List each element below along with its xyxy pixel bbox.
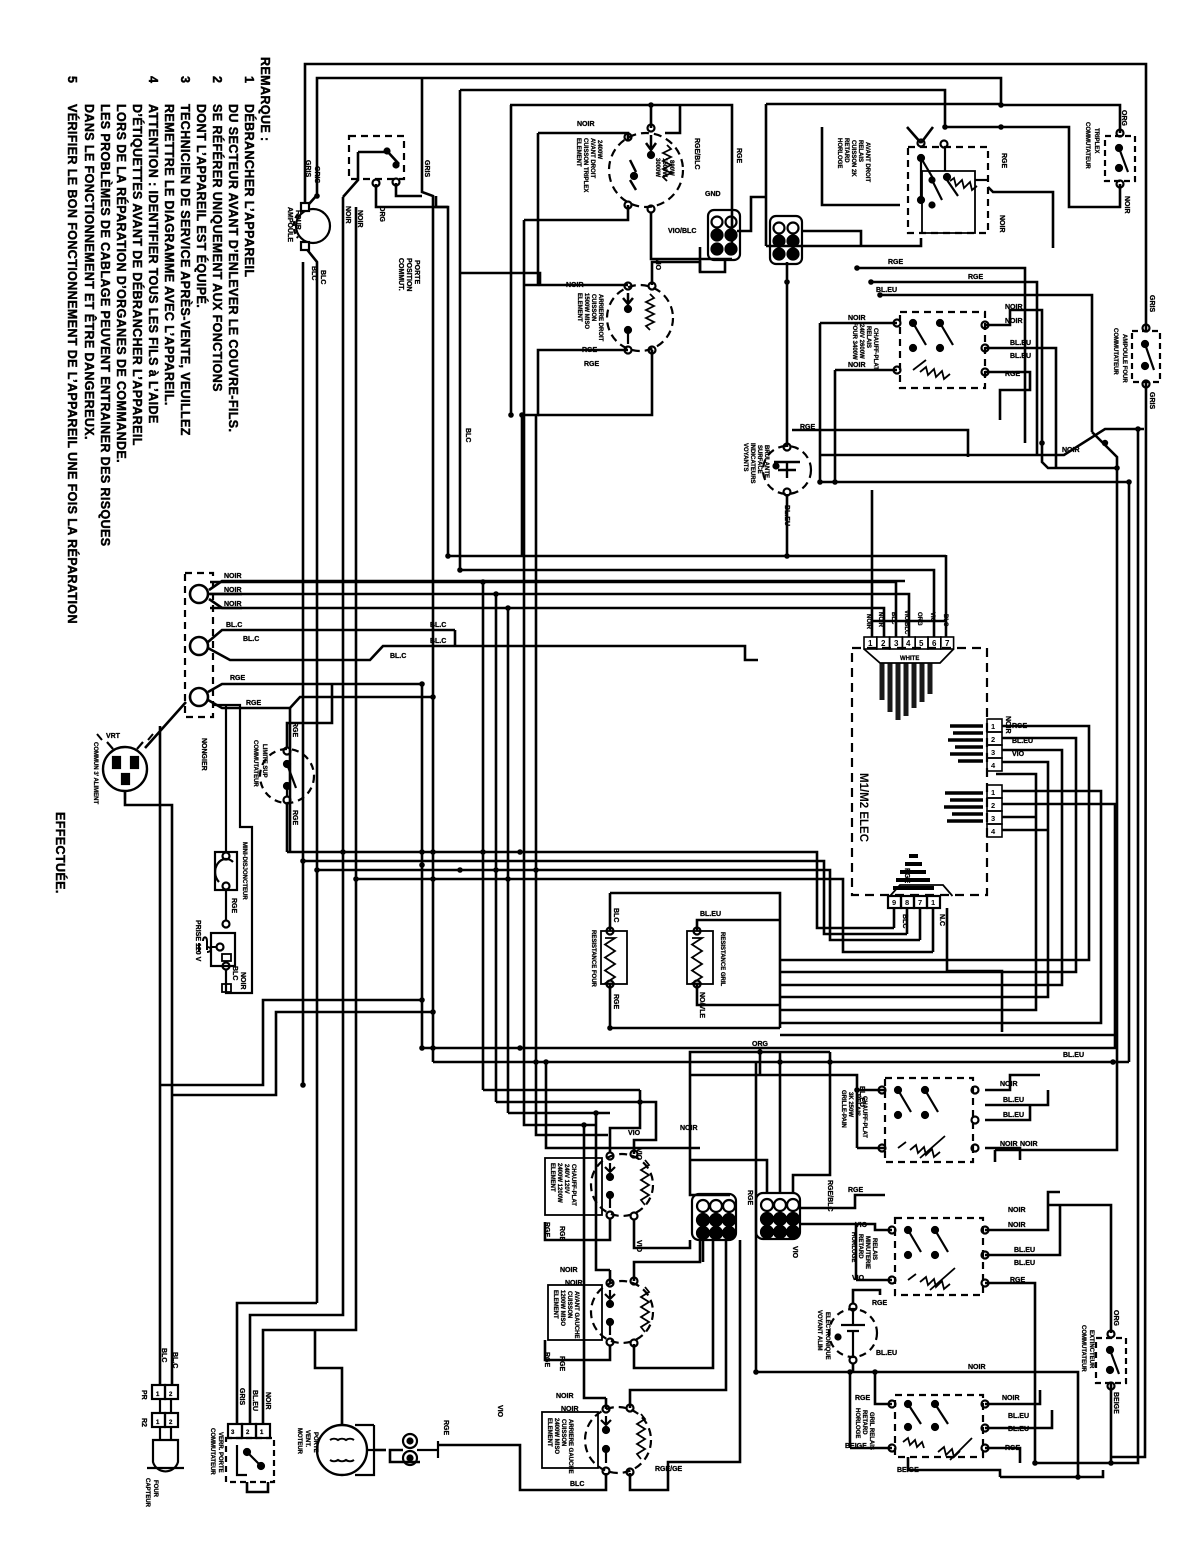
wire relay R1 rge wire 2 <box>871 282 1037 455</box>
wire element E5 vio <box>630 1240 726 1408</box>
svg-text:INDICATEURS: INDICATEURS <box>749 443 755 484</box>
svg-text:N.C: N.C <box>938 914 945 926</box>
svg-text:1: 1 <box>991 788 995 797</box>
wire relay box3 out 3 <box>985 1105 1030 1120</box>
wire bus y865 <box>317 870 920 940</box>
wire x536 long down <box>536 415 608 1135</box>
svg-text:BL.C: BL.C <box>430 622 446 629</box>
svg-text:SE RÉFÉRER UNIQUEMENT AUX FONC: SE RÉFÉRER UNIQUEMENT AUX FONCTIONS <box>210 104 225 392</box>
plug COMMUN 3 ALIMENTATION <box>97 734 153 799</box>
wire bus y852 <box>287 852 894 928</box>
svg-text:RGE: RGE <box>1005 371 1021 378</box>
svg-text:LORS DE LA RÉPARATION D’ORGANE: LORS DE LA RÉPARATION D’ORGANES DE COMMA… <box>114 104 129 463</box>
svg-text:RETARD: RETARD <box>857 1234 863 1259</box>
label m1m2 pin digits <box>868 639 950 648</box>
wire relay box3 input top <box>857 1089 885 1092</box>
svg-text:COMMUT.: COMMUT. <box>397 258 404 291</box>
svg-text:BLC: BLC <box>464 428 471 442</box>
wire ampoule four bottom lead <box>305 247 317 1303</box>
svg-text:ARRIERE DROIT: ARRIERE DROIT <box>597 294 603 342</box>
svg-text:CUISSON: CUISSON <box>590 294 596 321</box>
svg-text:GRIS: GRIS <box>1148 392 1155 409</box>
svg-text:1: 1 <box>931 898 935 907</box>
svg-text:WHITE: WHITE <box>900 656 919 662</box>
connector pigtail PR R2 <box>403 1434 438 1465</box>
svg-text:BL.EU: BL.EU <box>251 1390 258 1411</box>
wire gris vertical to porte switch <box>250 197 343 1424</box>
wire frame A left vertical <box>510 105 513 415</box>
wire voyant alim bottom <box>852 1363 855 1372</box>
svg-text:RGE: RGE <box>746 1190 753 1206</box>
breaker MINI-DISJONCTEUR <box>215 705 237 920</box>
wire R4 out 2 <box>985 1205 1060 1255</box>
svg-text:RESISTANCE GRIL: RESISTANCE GRIL <box>719 932 725 987</box>
svg-text:NO/VLE: NO/VLE <box>698 992 705 1018</box>
svg-text:BL.EU: BL.EU <box>1003 1112 1024 1119</box>
wire voyant alim top <box>853 1290 880 1303</box>
svg-text:RELAIS: RELAIS <box>871 1238 877 1260</box>
wire m1m2 strip2 wire 3 <box>1002 816 1036 819</box>
indicator VOYANT ALIM ELECTRONIQUE <box>829 1304 877 1364</box>
svg-text:NOIR: NOIR <box>224 587 242 594</box>
wire bundle line 5 <box>210 608 884 1113</box>
wire element E5 noir lead <box>605 1398 608 1409</box>
wire noir bus 1150 left <box>994 1150 997 1162</box>
wire y1148 line <box>546 1062 700 1148</box>
wire terminal block noir fan 2 <box>209 593 242 596</box>
wire element2 top right lead <box>652 262 700 285</box>
svg-text:PR: PR <box>140 1390 147 1400</box>
svg-text:AVANT DROIT: AVANT DROIT <box>589 138 595 178</box>
module M1/M2 ELEC box <box>852 637 1002 908</box>
wire R4 out rge <box>985 1283 1035 1463</box>
svg-text:1500W: 1500W <box>661 158 667 177</box>
svg-text:BLC: BLC <box>231 966 238 980</box>
relay R1 top dashed box <box>908 140 988 234</box>
wire y621 stub <box>872 620 946 623</box>
resistor RESISTANCE GRIL <box>687 928 713 988</box>
wire m1m2 pin wire 5 <box>780 774 1036 1010</box>
wire r1 feed left <box>822 127 900 205</box>
wire m1m2 right connector pin wires <box>780 726 1089 960</box>
svg-text:BL.C: BL.C <box>226 622 242 629</box>
wire G2 rge wire <box>800 1195 885 1208</box>
svg-text:2: 2 <box>246 1430 250 1436</box>
svg-text:NOIR: NOIR <box>998 215 1005 233</box>
wire bus y861 <box>303 861 907 934</box>
wire relay R2 out 1 <box>985 310 1042 443</box>
wire G2 right top <box>793 1052 830 1192</box>
svg-text:VIO: VIO <box>1012 751 1025 758</box>
svg-text:FOUR 3400W: FOUR 3400W <box>851 322 857 360</box>
svg-text:RGE: RGE <box>848 1187 864 1194</box>
svg-text:GRIS: GRIS <box>313 166 320 183</box>
wire terminal rge fan 2 <box>208 697 433 708</box>
svg-text:NOIR: NOIR <box>577 121 595 128</box>
svg-text:NOIR: NOIR <box>680 1125 698 1132</box>
wire plug to nongier <box>145 702 186 1385</box>
wire relay box3 out 2 <box>985 1090 1048 1105</box>
wire element E5 bottom right <box>630 1240 740 1490</box>
wire element E3 bottom <box>545 1218 610 1240</box>
wire x856 drop <box>855 1224 858 1280</box>
wire x820 vertical <box>819 323 822 482</box>
svg-text:BL.EU: BL.EU <box>1003 1097 1024 1104</box>
wire left vertical x460 <box>459 90 462 570</box>
svg-text:VIO: VIO <box>852 1275 865 1282</box>
wire grid1 right leads <box>737 197 766 231</box>
svg-text:RGE: RGE <box>582 347 598 354</box>
svg-text:VOYANTS: VOYANTS <box>742 443 748 471</box>
wire terminal blc fan 1 <box>208 630 455 642</box>
connector G1 3x3 grid <box>692 1194 736 1240</box>
svg-text:BL.EU: BL.EU <box>1014 1260 1035 1267</box>
wire element E5 top noir <box>584 1125 606 1398</box>
wire moteur vent top feed <box>315 1330 342 1425</box>
wire element1 left vertical <box>524 133 538 285</box>
wire relay R2 out 3 <box>985 372 1030 420</box>
svg-text:ORG: ORG <box>916 612 922 626</box>
svg-text:NOIR: NOIR <box>1062 447 1080 454</box>
svg-text:RGE: RGE <box>968 274 984 281</box>
svg-text:NOIR: NOIR <box>264 1392 271 1410</box>
svg-text:RETARD: RETARD <box>843 138 849 163</box>
element E2 CUISSON ARRIERE DROIT <box>607 283 673 354</box>
switch COMMUTATEUR LIMITE SUP <box>260 748 314 804</box>
wire R5 bleu out <box>985 1410 1052 1428</box>
svg-text:BLC: BLC <box>310 266 317 280</box>
motor MOTEUR VENT PORTE <box>317 1410 374 1475</box>
svg-text:BEIGE: BEIGE <box>845 1443 867 1450</box>
svg-text:NOIR: NOIR <box>224 601 242 608</box>
wire relay R1 top Y right <box>921 127 933 143</box>
svg-text:VÉRIFIER LE BON FONCTIONNEMENT: VÉRIFIER LE BON FONCTIONNEMENT DE L’APPA… <box>65 104 80 624</box>
wire G2 top vertical <box>779 1052 782 1192</box>
svg-text:ORG: ORG <box>1112 1310 1119 1327</box>
svg-text:240V 120V: 240V 120V <box>563 1164 569 1194</box>
svg-text:GND: GND <box>705 191 721 198</box>
wire x376 drop <box>376 184 448 207</box>
wire voyant feed vertical <box>786 262 789 447</box>
switch COMMUT AMPOULE FOUR <box>1132 325 1160 388</box>
wire element E4 bottom right <box>634 1240 713 1368</box>
svg-text:NOIR: NOIR <box>848 315 866 322</box>
wire m1m2 pin wire 3 <box>780 750 1062 985</box>
connector R2 <box>152 1399 178 1427</box>
wire relay R1 bleu wire <box>880 295 1092 432</box>
wire m1m2 pin wire 4 <box>780 762 1048 997</box>
svg-text:RELAIS: RELAIS <box>857 140 863 162</box>
svg-text:RELAIS: RELAIS <box>865 326 871 348</box>
svg-text:RGE: RGE <box>230 675 246 682</box>
element E1 CUISSON TRIPLEX AVANT DROIT <box>609 125 683 213</box>
svg-text:RGE: RGE <box>1010 1277 1026 1284</box>
wire element1 top frame <box>538 133 628 140</box>
svg-text:DÉBRANCHER L’APPAREIL: DÉBRANCHER L’APPAREIL <box>242 104 257 277</box>
svg-text:NOIR: NOIR <box>877 612 883 628</box>
wire blc right jog <box>454 630 457 646</box>
svg-text:ELEMENT: ELEMENT <box>549 1163 555 1192</box>
wire relay R2 bottom input <box>835 369 897 372</box>
svg-text:ORG: ORG <box>1120 110 1127 127</box>
svg-text:COMMUTATEUR: COMMUTATEUR <box>1084 122 1090 169</box>
connector J2 3x2 grid <box>770 216 802 264</box>
svg-text:NOIR: NOIR <box>1123 196 1130 214</box>
svg-text:VIO/BLC: VIO/BLC <box>903 610 909 635</box>
svg-text:RGE: RGE <box>543 1222 550 1238</box>
connector G2 3x3 grid <box>756 1193 800 1239</box>
relay R4 dashed box <box>889 1218 989 1295</box>
wire R4 out to right verticals <box>985 1192 1060 1230</box>
svg-text:BLC: BLC <box>319 270 326 284</box>
svg-text:PORTE: PORTE <box>413 260 420 284</box>
svg-text:1200W MISO: 1200W MISO <box>559 1290 565 1326</box>
svg-text:NOIR: NOIR <box>1008 1207 1026 1214</box>
relay R2 dashed box <box>894 312 989 388</box>
svg-text:NOIR: NOIR <box>561 1406 579 1413</box>
switch COMMUTATEUR TRIPLEX <box>1105 130 1135 188</box>
svg-text:VOYANT ALIM: VOYANT ALIM <box>816 1310 822 1351</box>
svg-text:CUISSON: CUISSON <box>560 1419 566 1446</box>
wire commut position porte right lead <box>396 183 422 196</box>
svg-text:BLC: BLC <box>901 914 908 928</box>
wire top bus 2 <box>309 78 1120 204</box>
wire R5 noir out <box>985 1390 1040 1404</box>
svg-text:GRILLE-PAIN: GRILLE-PAIN <box>840 1090 846 1128</box>
terminal block BORNIER <box>185 573 213 717</box>
svg-text:RGE: RGE <box>291 722 298 738</box>
wire bundle line 1 <box>448 555 946 558</box>
svg-text:BEIGE: BEIGE <box>897 1467 919 1474</box>
svg-text:D’ÉTIQUETTES AVANT DE DÉBRANCH: D’ÉTIQUETTES AVANT DE DÉBRANCHER L’APPAR… <box>130 104 145 446</box>
wire m1m2 strip2 wire 1 <box>780 791 1101 1023</box>
svg-text:NOIR: NOIR <box>566 282 584 289</box>
svg-text:ELEMENT: ELEMENT <box>552 1290 558 1319</box>
svg-text:EFFECTUÉE.: EFFECTUÉE. <box>53 812 68 894</box>
svg-text:NOIR: NOIR <box>239 972 246 990</box>
svg-text:GRIS: GRIS <box>423 160 430 177</box>
svg-text:NOIR: NOIR <box>1005 304 1023 311</box>
wire bus y103 <box>766 103 1001 106</box>
svg-text:6: 6 <box>932 639 937 648</box>
element E4 cuisson avant gauche <box>548 1278 653 1347</box>
wire relay box3 out noir <box>985 1075 1040 1090</box>
svg-text:VIO: VIO <box>496 1405 503 1418</box>
svg-text:3: 3 <box>991 748 995 757</box>
wire element E3 vio feed <box>634 1102 656 1154</box>
wire top bus 1 <box>305 64 1146 330</box>
svg-text:2: 2 <box>169 1420 173 1426</box>
svg-text:GRIL RELAIS: GRIL RELAIS <box>868 1412 874 1450</box>
wire L pair 2 <box>172 1012 433 1095</box>
wire G1 bottom leads <box>702 1240 705 1262</box>
svg-text:RGE: RGE <box>855 1395 871 1402</box>
svg-text:1500W MISO: 1500W MISO <box>583 293 589 329</box>
wire x317 to verr porte <box>237 1303 317 1424</box>
svg-text:RGE: RGE <box>1000 153 1007 169</box>
wire verr porte bottom lead <box>247 1482 268 1492</box>
svg-text:7: 7 <box>918 898 922 907</box>
svg-text:RGE/GE: RGE/GE <box>655 1466 683 1473</box>
wire terminal rge fan 1 <box>208 684 422 1048</box>
svg-text:BL.EU: BL.EU <box>876 1350 897 1357</box>
svg-text:VIO: VIO <box>635 1148 642 1161</box>
wire element1 bottom leads <box>524 205 628 220</box>
wire terminal block noir fan 1 <box>209 581 242 590</box>
svg-text:BL.EU: BL.EU <box>1012 738 1033 745</box>
svg-text:RGE: RGE <box>1012 723 1028 730</box>
wire relay R3 frame <box>690 1075 857 1148</box>
wire resist frame left <box>610 1027 780 1030</box>
svg-text:AVANT DROIT: AVANT DROIT <box>864 142 870 182</box>
wire y468 link <box>1042 443 1117 468</box>
wire bundle line 2 <box>460 570 934 637</box>
svg-text:REMETTRE LE DIAGRAMME AVEC L’A: REMETTRE LE DIAGRAMME AVEC L’APPAREIL. <box>162 104 176 406</box>
svg-text:RGE: RGE <box>442 1420 449 1436</box>
svg-text:TECHNICIEN DE SERVICE APRÈS-VE: TECHNICIEN DE SERVICE APRÈS-VENTE, VEUIL… <box>178 104 193 436</box>
wire terminal block noir fan 3 <box>209 599 242 608</box>
svg-text:VENT.: VENT. <box>304 1430 310 1447</box>
wire element1 right lead <box>665 105 680 133</box>
switch COMMUT POSITION PORTE dashed box <box>349 136 404 187</box>
switch COMMUTATEUR EXTINCTEUR <box>1096 1331 1126 1390</box>
svg-text:VRT: VRT <box>106 733 121 740</box>
junction dots <box>314 867 320 873</box>
svg-text:ATTENTION : IDENTIFIER TOUS LE: ATTENTION : IDENTIFIER TOUS LES FILS à L… <box>146 104 160 424</box>
svg-text:240V 2600W: 240V 2600W <box>858 324 864 359</box>
svg-text:RGE: RGE <box>872 1300 888 1307</box>
svg-text:DONT L’APPAREIL EST ÉQUIPÉ.: DONT L’APPAREIL EST ÉQUIPÉ. <box>194 104 209 308</box>
svg-text:R2: R2 <box>140 1418 147 1427</box>
outlet PRISE 120 V <box>199 705 252 993</box>
wire relay R2 out 2 <box>985 348 1056 468</box>
svg-text:NOIR: NOIR <box>1005 318 1023 325</box>
wire x766 drop <box>766 104 921 246</box>
svg-text:VIO: VIO <box>628 1130 641 1137</box>
wire triplex lower lead <box>1001 127 1120 207</box>
svg-text:ELEMENT: ELEMENT <box>546 1418 552 1447</box>
svg-text:BLC: BLC <box>612 908 619 922</box>
wire pin1 drop <box>871 490 874 637</box>
wire pin7 drop <box>945 555 948 637</box>
svg-text:CUISSON: CUISSON <box>566 1291 572 1318</box>
svg-text:CUISSON TRIPLEX: CUISSON TRIPLEX <box>582 138 588 192</box>
wire resist frame <box>610 893 780 1028</box>
svg-text:2400W: 2400W <box>596 140 602 159</box>
svg-text:9: 9 <box>892 898 896 907</box>
svg-text:NOIR: NOIR <box>1008 1222 1026 1229</box>
wire commut position porte leads <box>343 152 358 197</box>
wire voyant bottom lead <box>786 494 789 556</box>
wire rge to limite sup <box>287 684 332 748</box>
svg-text:BLC: BLC <box>160 1348 167 1362</box>
wire relay R3 left drop <box>690 1075 730 1195</box>
sensor CAPTEUR FOUR <box>147 1427 184 1471</box>
svg-text:RGE: RGE <box>612 994 619 1010</box>
wire limite sup bottom <box>286 803 289 852</box>
wire extincteur bottom lead <box>1110 1383 1113 1463</box>
svg-text:NOIR: NOIR <box>848 362 866 369</box>
wire voyant rge right <box>792 430 968 457</box>
wire bundle line 4 <box>210 594 909 1102</box>
wire x422 drop <box>422 78 433 1062</box>
svg-text:CUISSON 2K: CUISSON 2K <box>850 140 856 177</box>
wire R5 input <box>875 1372 892 1404</box>
svg-text:ARRIERE GAUCHE: ARRIERE GAUCHE <box>567 1419 573 1474</box>
wire x756 vertical <box>755 1062 758 1372</box>
wire resistance gril top lead <box>697 920 780 931</box>
svg-text:NONGIER: NONGIER <box>200 738 207 771</box>
wire X junction leg b <box>820 429 1144 455</box>
svg-text:DANS LE FONCTIONNEMENT ET ÊTRE: DANS LE FONCTIONNEMENT ET ÊTRE DANGEREUX… <box>82 104 97 440</box>
svg-text:VERR. PORTE: VERR. PORTE <box>217 1432 223 1473</box>
wire R5 beige input <box>850 1372 892 1448</box>
svg-text:VIO: VIO <box>855 1222 868 1229</box>
wire relay box3 input bottom <box>857 1147 885 1150</box>
svg-text:FOUR: FOUR <box>294 210 301 230</box>
svg-text:800W: 800W <box>668 160 674 176</box>
wire element2 bottom right <box>538 350 652 415</box>
svg-text:M1/M2 ELEC: M1/M2 ELEC <box>857 773 869 842</box>
svg-text:3: 3 <box>894 639 899 648</box>
wire R5 out to 1463 <box>985 1448 1020 1463</box>
wire element E4 vio <box>634 1240 700 1281</box>
svg-text:MINI-DISJONCTEUR: MINI-DISJONCTEUR <box>241 842 247 900</box>
svg-text:8: 8 <box>905 898 909 907</box>
wire element2 top leads <box>460 273 628 285</box>
svg-text:ELEMENT: ELEMENT <box>576 293 582 322</box>
wire element E4 top noir <box>596 1113 610 1270</box>
svg-text:HORLOGE: HORLOGE <box>854 1408 860 1438</box>
svg-text:NOIR: NOIR <box>224 573 242 580</box>
wire grid1 bottom lead <box>700 247 725 272</box>
wire G2 to relay R4 <box>800 1224 892 1230</box>
svg-text:BLC: BLC <box>890 612 896 625</box>
svg-text:BL.EU: BL.EU <box>1010 353 1031 360</box>
svg-text:FOUR: FOUR <box>152 1480 158 1498</box>
wire commut position porte inner top <box>358 151 387 154</box>
svg-text:BLC: BLC <box>570 1481 584 1488</box>
wire x835 drop <box>834 370 837 482</box>
wire resistance four bottom lead <box>609 984 612 1028</box>
wire bundle line 3 <box>210 582 896 1090</box>
svg-text:HORLOGE: HORLOGE <box>850 1232 856 1262</box>
wire y1205 wire <box>1048 1205 1111 1333</box>
svg-text:GRIS: GRIS <box>304 160 311 177</box>
svg-text:NOIR: NOIR <box>356 210 363 228</box>
svg-text:AVANT GAUCHE: AVANT GAUCHE <box>573 1291 579 1338</box>
wire cascade 1 <box>483 1089 640 1092</box>
svg-text:4: 4 <box>906 639 911 648</box>
svg-text:ELECTRONIQUE: ELECTRONIQUE <box>824 1312 830 1360</box>
svg-text:4: 4 <box>146 76 160 83</box>
svg-text:SURFACE: SURFACE <box>756 445 762 474</box>
wire relay R3 orc wire <box>759 1048 762 1075</box>
wire element E4 noir lead <box>609 1270 612 1283</box>
svg-text:2: 2 <box>991 735 995 744</box>
svg-text:ORG: ORG <box>752 1041 769 1048</box>
wire right outer vertical lower <box>1110 383 1146 1457</box>
svg-text:CHAUFF-PLAT: CHAUFF-PLAT <box>872 328 878 370</box>
svg-text:COMMUTATEUR: COMMUTATEUR <box>209 1428 215 1475</box>
relay R5 dashed box <box>889 1395 989 1460</box>
svg-text:3K 250W: 3K 250W <box>847 1092 853 1117</box>
wire m1m2 strip2 wire 2 <box>1002 804 1115 1035</box>
svg-text:COMMUTATEUR: COMMUTATEUR <box>252 740 258 787</box>
wire blc to center <box>455 646 758 660</box>
wire element E4 bottom <box>545 1340 610 1360</box>
svg-text:NOIR: NOIR <box>556 1393 574 1400</box>
